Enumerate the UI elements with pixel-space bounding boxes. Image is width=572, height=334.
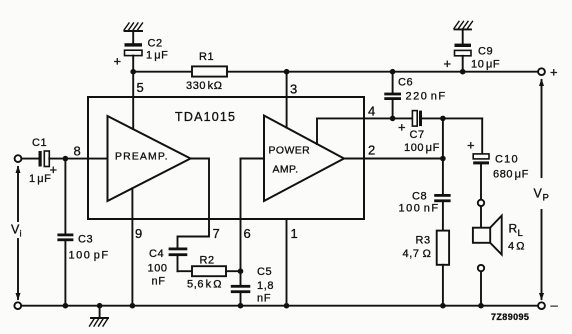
node: pin1 / rail — [284, 303, 290, 309]
wire pin 2 — [344, 158, 443, 160]
svg-text:C6: C6 — [398, 77, 413, 89]
svg-text:680 μF: 680 μF — [493, 169, 529, 181]
svg-text:100 nF: 100 nF — [399, 203, 440, 215]
R2 labels — [187, 255, 222, 291]
svg-text:C10: C10 — [495, 154, 519, 166]
svg-text:TDA1015: TDA1015 — [175, 110, 236, 124]
svg-text:L: L — [518, 228, 523, 239]
wire pin 6 (power amp input down to rail) — [241, 159, 265, 285]
capacitor C3 — [57, 159, 73, 306]
C1 labels — [29, 137, 57, 185]
svg-text:100 μF: 100 μF — [404, 142, 440, 154]
svg-text:+: + — [114, 54, 122, 69]
svg-text:AMP.: AMP. — [273, 164, 299, 176]
wire pin 7 (preamp output to C4) — [178, 159, 210, 248]
ground G3 (top right, above C9) — [454, 21, 473, 43]
C5 labels — [257, 266, 274, 305]
svg-text:i: i — [20, 229, 22, 240]
svg-text:R2: R2 — [200, 255, 215, 267]
capacitor C2 — [125, 43, 143, 71]
svg-text:+: + — [550, 65, 558, 80]
speaker RL — [473, 216, 502, 255]
ground G2 (bottom rail) — [90, 303, 109, 326]
IC U1 TDA1015 box — [88, 97, 364, 219]
node: pin2 / C8 branch — [440, 156, 446, 162]
Vp label — [534, 187, 549, 204]
svg-text:V: V — [534, 187, 543, 201]
power amp label — [269, 145, 311, 176]
wire R3 to rail — [442, 265, 444, 306]
svg-text:R3: R3 — [416, 235, 431, 247]
node: C5 / rail — [238, 303, 244, 309]
svg-text:C2: C2 — [148, 38, 163, 50]
wire pin 9 — [131, 188, 133, 305]
svg-text:4,7 Ω: 4,7 Ω — [403, 248, 432, 260]
capacitor C4 — [169, 248, 192, 272]
ground G1 (top, above C2) — [124, 23, 143, 43]
svg-text:2: 2 — [368, 143, 375, 158]
svg-text:PREAMP.: PREAMP. — [115, 151, 169, 163]
C7 labels — [398, 120, 440, 155]
C4 labels — [148, 248, 168, 288]
svg-text:1 μF: 1 μF — [29, 173, 52, 185]
supply - terminal — [538, 302, 545, 309]
input terminal (top left) — [15, 155, 22, 162]
svg-text:C7: C7 — [410, 129, 425, 141]
node: pin9 / rail — [130, 303, 136, 309]
svg-text:3: 3 — [290, 82, 297, 97]
svg-text:7Z89095: 7Z89095 — [491, 312, 529, 322]
wire speaker to rail — [480, 271, 482, 305]
node: C6 / top rail — [390, 69, 396, 75]
svg-text:4: 4 — [368, 104, 375, 119]
bottom rail wire — [21, 305, 538, 307]
C8 labels — [399, 191, 440, 215]
node: input / C3 junction — [63, 156, 69, 162]
speaker terminal (top) — [478, 200, 484, 206]
node: pin3 / top rail — [284, 69, 290, 75]
wire C8/R3 branch vertical — [442, 118, 444, 194]
wire pin 1 — [286, 219, 288, 306]
Vp dimension arrow — [539, 79, 544, 301]
resistor R3 — [437, 231, 449, 265]
svg-text:C5: C5 — [257, 266, 272, 278]
C9 labels — [444, 46, 501, 72]
capacitor C7 — [412, 111, 482, 127]
C3 labels — [69, 234, 110, 262]
Vi dimension arrow — [16, 166, 21, 301]
svg-text:5: 5 — [137, 80, 144, 95]
op-amp A1 preamp triangle — [108, 116, 191, 201]
op-amp A2 power amp triangle — [264, 116, 344, 202]
svg-text:C8: C8 — [412, 191, 427, 203]
wire pin 3 — [286, 72, 288, 128]
svg-text:1 μF: 1 μF — [146, 50, 169, 62]
svg-text:9: 9 — [135, 226, 142, 241]
speaker terminal (bottom) — [478, 265, 484, 271]
svg-text:8: 8 — [74, 144, 81, 159]
capacitor C8 — [434, 194, 450, 231]
wire pin 5 — [132, 72, 134, 129]
capacitor C10 — [473, 154, 489, 200]
RL labels — [508, 222, 525, 253]
node: C2 / pin5 / rail junction — [130, 69, 136, 75]
bottom-left terminal — [14, 302, 21, 309]
svg-text:5,6 k Ω: 5,6 k Ω — [187, 279, 222, 291]
capacitor C5 — [231, 285, 251, 306]
svg-text:P: P — [543, 193, 549, 204]
svg-text:C3: C3 — [78, 234, 93, 246]
svg-text:R: R — [509, 222, 518, 236]
supply + terminal — [538, 68, 545, 75]
Vi label — [11, 223, 22, 240]
capacitor C9 — [455, 44, 472, 72]
wire pin 4 internal — [317, 118, 364, 144]
node: C6 / pin4 wire — [390, 116, 396, 122]
wire C1 to IC pin 8 — [49, 158, 107, 160]
capacitor C6 — [384, 72, 401, 119]
svg-text:POWER: POWER — [269, 145, 311, 157]
node: C9 / top rail — [460, 69, 466, 75]
svg-text:nF: nF — [257, 293, 271, 305]
svg-text:–: – — [551, 298, 559, 313]
node: R3 / rail — [440, 303, 446, 309]
resistor R2 — [192, 266, 226, 276]
capacitor C1 — [39, 151, 50, 167]
wire input to C1 — [21, 158, 38, 160]
wire top rail left of R1 — [133, 71, 192, 73]
svg-text:7: 7 — [213, 226, 220, 241]
svg-text:1,8: 1,8 — [257, 280, 274, 292]
svg-text:10 μF: 10 μF — [471, 59, 500, 71]
svg-text:100: 100 — [148, 263, 168, 275]
svg-text:C4: C4 — [149, 248, 164, 260]
svg-text:R1: R1 — [199, 51, 214, 63]
C10 labels — [467, 138, 529, 181]
wire R2 to pin6 line — [226, 270, 241, 272]
wire pin 4 external — [364, 117, 412, 119]
svg-text:C1: C1 — [32, 137, 47, 149]
R1 labels — [186, 51, 223, 92]
node: C7 / C8 branch — [440, 116, 446, 122]
svg-text:nF: nF — [152, 276, 166, 288]
svg-text:+: + — [467, 138, 475, 153]
node: speaker / rail — [478, 303, 484, 309]
wire to speaker — [480, 206, 482, 228]
resistor R1 — [192, 66, 227, 76]
svg-text:220 nF: 220 nF — [406, 91, 447, 103]
C2 labels — [114, 38, 169, 69]
node: C3 / rail — [63, 303, 69, 309]
R3 labels — [403, 235, 432, 261]
svg-text:330 kΩ: 330 kΩ — [186, 80, 223, 92]
wire to C10 — [481, 118, 483, 153]
svg-text:100 pF: 100 pF — [69, 250, 110, 262]
node: R2 / pin 6 — [238, 268, 244, 274]
C6 labels — [398, 77, 447, 103]
svg-text:4 Ω: 4 Ω — [508, 241, 525, 253]
svg-text:1: 1 — [291, 226, 298, 241]
svg-text:6: 6 — [244, 226, 251, 241]
svg-text:+: + — [398, 120, 406, 135]
svg-text:C9: C9 — [478, 46, 493, 58]
wire top rail right of R1 — [227, 71, 538, 73]
svg-text:+: + — [444, 56, 452, 71]
